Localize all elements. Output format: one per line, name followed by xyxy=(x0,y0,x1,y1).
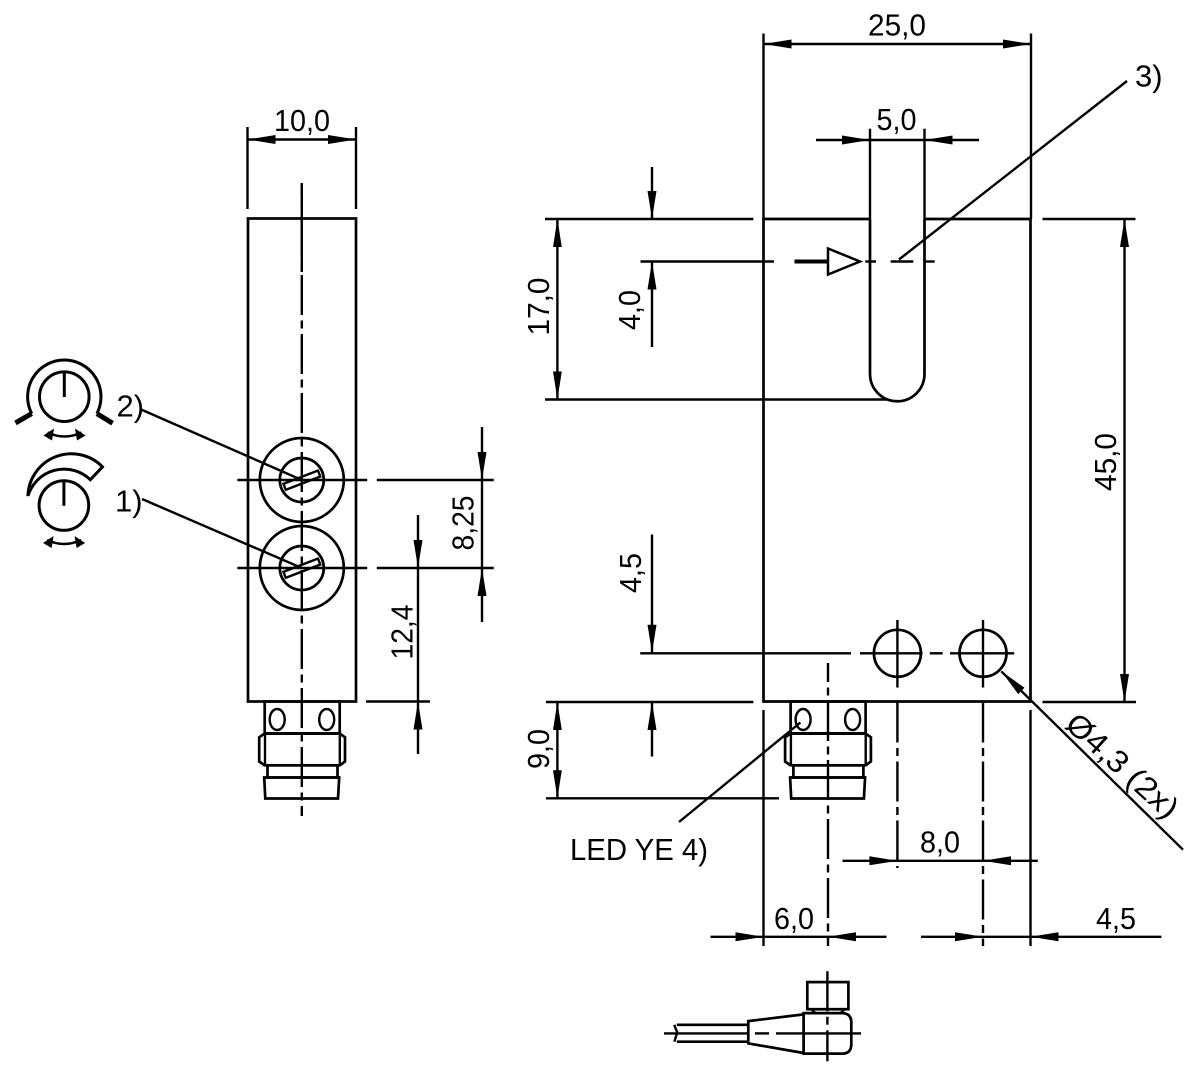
dimension 4,0 line and arrows xyxy=(648,167,657,347)
dimension 25,0 line and arrows xyxy=(764,40,1032,49)
dimension 4,5 lower line and arrows xyxy=(921,932,1161,941)
front view connector hex nut xyxy=(785,734,871,766)
leader line hole diameter xyxy=(1001,671,1183,849)
svg-text:8,0: 8,0 xyxy=(920,825,960,860)
svg-text:12,4: 12,4 xyxy=(385,605,420,660)
cable plug barrel xyxy=(807,982,848,1013)
potentiometer 2 upper trimmer xyxy=(260,438,344,522)
adjustment knob icon 2 xyxy=(16,360,113,440)
cable plug body xyxy=(804,1013,852,1054)
side view connector neck xyxy=(265,702,340,734)
extension line left hole center below xyxy=(896,703,898,869)
side view connector ring xyxy=(268,765,338,777)
dimension 8,25 line and arrows xyxy=(478,427,487,622)
svg-text:17,0: 17,0 xyxy=(521,278,556,336)
dimension 10,0 line and arrows xyxy=(248,135,357,144)
svg-text:4,0: 4,0 xyxy=(612,290,647,330)
side view connector plug tip xyxy=(264,778,339,799)
cable lines xyxy=(674,1025,748,1042)
side view connector hex nut xyxy=(259,734,345,766)
dimension 4,5 upper line and arrows xyxy=(648,535,657,757)
cable plug boot xyxy=(748,1014,803,1053)
svg-text:Ø4,3 (2x): Ø4,3 (2x) xyxy=(1059,706,1186,826)
front view body outline xyxy=(764,219,1031,702)
svg-text:1): 1) xyxy=(115,484,143,519)
dimension 9,0 line and arrows xyxy=(553,702,562,798)
dimension 8,0 line and arrows xyxy=(843,856,1038,865)
adjustment knob icon 1 xyxy=(28,454,103,548)
light beam arrow xyxy=(828,249,935,275)
leader line label 2 xyxy=(140,409,302,480)
dimension 45,0 extension lines xyxy=(1043,219,1137,702)
dimension 9,0 extension lines xyxy=(546,702,779,798)
front view connector plug tip xyxy=(790,778,865,799)
dimension 12,4 line and arrows xyxy=(414,515,423,754)
dimension 5,0 line and arrows xyxy=(816,136,979,145)
side view connector ellipse holes xyxy=(270,709,335,730)
front view slot xyxy=(870,219,925,401)
extension line right hole center below xyxy=(982,703,984,947)
svg-text:10,0: 10,0 xyxy=(274,103,330,138)
svg-text:LED YE 4): LED YE 4) xyxy=(570,832,708,867)
leader line label 1 xyxy=(142,499,302,568)
extension line body bottom right of side view xyxy=(366,700,430,702)
dimension 6,0 line and arrows xyxy=(711,932,887,941)
dimension 25,0 extension lines xyxy=(764,34,1032,220)
extension line body left edge below xyxy=(762,710,764,946)
svg-text:2): 2) xyxy=(117,389,145,424)
potentiometer 1 horizontal centerline xyxy=(237,567,493,569)
svg-text:3): 3) xyxy=(1135,59,1163,94)
svg-text:25,0: 25,0 xyxy=(868,8,926,43)
cable plug vertical centerline xyxy=(826,971,828,1061)
dimension 45,0 line and arrows xyxy=(1120,219,1129,702)
dimension 17,0 extension lines xyxy=(545,219,888,400)
front view connector ring xyxy=(793,765,863,777)
svg-text:45,0: 45,0 xyxy=(1088,433,1123,491)
mounting holes horizontal centerline xyxy=(640,652,851,654)
svg-text:8,25: 8,25 xyxy=(446,496,481,551)
front view connector ellipse holes LED xyxy=(796,709,861,730)
potentiometer 1 lower trimmer xyxy=(260,526,344,610)
potentiometer 2 horizontal centerline xyxy=(237,479,493,481)
side view body outline xyxy=(248,219,356,702)
front view connector neck xyxy=(791,702,866,734)
dimension 5,0 extension lines xyxy=(870,129,925,219)
svg-text:5,0: 5,0 xyxy=(877,102,917,137)
leader line LED label xyxy=(679,723,800,823)
svg-text:4,5: 4,5 xyxy=(613,553,648,593)
leader line label 3 xyxy=(899,81,1127,260)
dimension 17,0 line and arrows xyxy=(553,219,562,400)
svg-text:6,0: 6,0 xyxy=(774,901,814,936)
cable plug horizontal centerline xyxy=(664,1032,749,1034)
extension line body right edge below xyxy=(1029,710,1031,946)
side view vertical centerline xyxy=(301,183,303,816)
svg-text:4,5: 4,5 xyxy=(1096,901,1136,936)
dimension 10,0 extension lines xyxy=(248,127,357,209)
mounting hole left xyxy=(874,620,921,688)
mounting hole right xyxy=(960,620,1007,688)
svg-text:9,0: 9,0 xyxy=(521,729,556,769)
front view connector centerline xyxy=(827,663,829,946)
light beam reference line xyxy=(641,260,829,262)
